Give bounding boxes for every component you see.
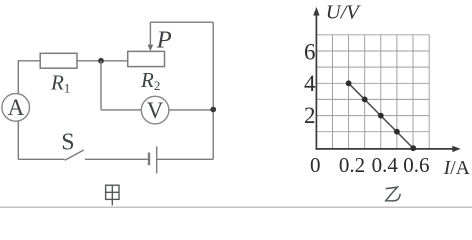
wire: ammeter bottom to bottom rail: [17, 121, 19, 159]
battery long plate (positive): [156, 146, 158, 173]
wire: right vertical rail: [212, 22, 214, 159]
wire: left top horizontal from left rail to R1: [18, 60, 40, 62]
svg-text:I/A: I/A: [443, 158, 470, 179]
trend line through data points: [349, 83, 414, 148]
x axis I: [316, 148, 457, 150]
resistor R1: [40, 53, 77, 68]
battery short plate (negative): [148, 153, 150, 166]
svg-text:0: 0: [310, 153, 321, 177]
y axis U: [315, 10, 317, 150]
node A (junction dot): [98, 58, 104, 64]
wire: bottom rail left to switch: [18, 158, 65, 160]
node B (junction dot on right rail): [210, 107, 216, 113]
wire: switch to battery: [85, 158, 149, 160]
svg-text:0.4: 0.4: [372, 153, 399, 177]
wire: branch horizontal to voltmeter: [101, 109, 141, 111]
svg-text:R1: R1: [50, 70, 70, 95]
svg-text:P: P: [156, 27, 172, 54]
svg-text:6: 6: [304, 39, 316, 64]
wire: left vertical rail down to ammeter: [17, 60, 19, 94]
svg-text:A: A: [8, 95, 25, 120]
data point (0.2, 4): [346, 80, 352, 86]
wire: top run from slider to right rail: [150, 21, 213, 23]
wire: battery to right rail: [157, 158, 214, 160]
data point (0.4, 2): [378, 113, 384, 119]
wire: voltmeter right to node B: [169, 109, 213, 111]
svg-text:V: V: [147, 98, 164, 123]
svg-text:0.6: 0.6: [403, 153, 429, 177]
data point (0.3, 3): [362, 97, 368, 103]
data point (0.6, 0): [410, 145, 416, 151]
graph grid: [316, 35, 429, 149]
label 甲 (drawn strokes): [106, 185, 119, 205]
wire: branch vertical from node A down: [100, 61, 102, 110]
svg-text:4: 4: [304, 71, 316, 96]
wire: R1 right to node A: [77, 60, 128, 62]
scan artifact: bottom edge line: [0, 206, 472, 208]
svg-text:U/V: U/V: [326, 2, 362, 24]
ammeter A1 circle: [2, 94, 30, 122]
label 乙 (drawn strokes): [386, 187, 401, 201]
rheostat slider arrow P: [149, 22, 151, 46]
svg-text:0.2: 0.2: [339, 153, 365, 177]
voltmeter V1 circle: [141, 96, 169, 124]
svg-text:R2: R2: [140, 68, 160, 93]
svg-text:2: 2: [304, 103, 316, 128]
rheostat R2 body: [128, 51, 165, 66]
svg-text:S: S: [61, 130, 74, 156]
data point (0.5, 1): [394, 129, 400, 135]
switch S blade: [65, 150, 84, 160]
